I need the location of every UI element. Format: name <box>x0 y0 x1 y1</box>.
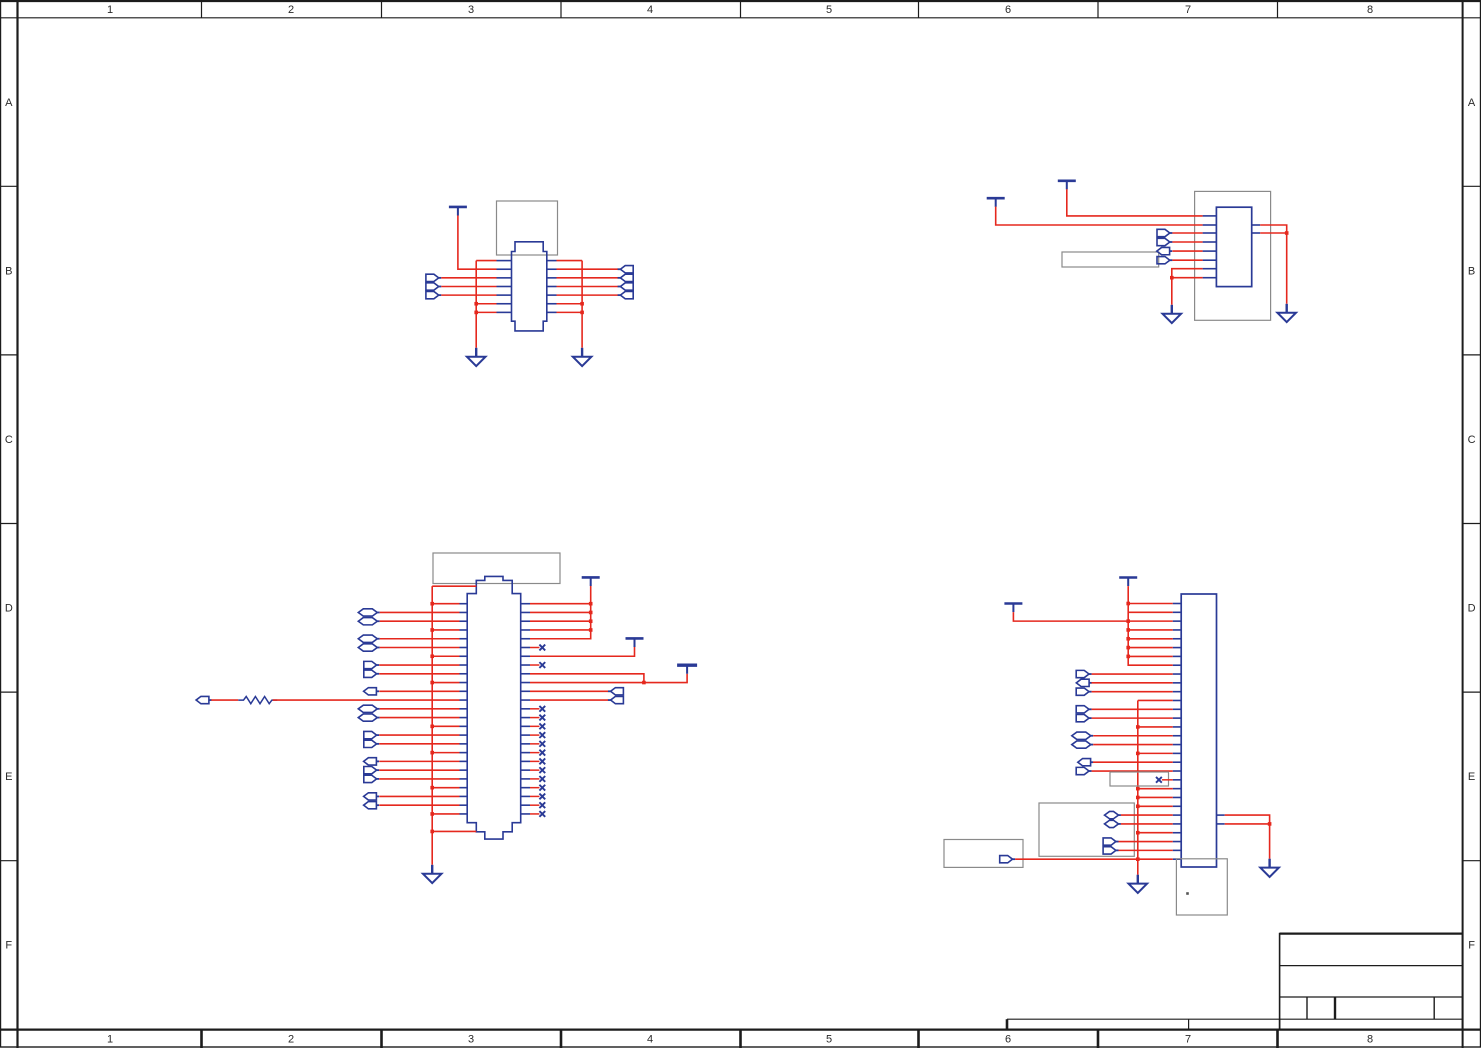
wire power to pin2 <box>996 207 1203 225</box>
wire pin7 to ground <box>1172 269 1203 305</box>
wire stub <box>530 769 539 771</box>
port <box>620 291 633 298</box>
no-connect pin17 <box>539 741 545 747</box>
J2 right pin 35 <box>521 682 530 684</box>
wire stub <box>530 804 539 806</box>
port <box>364 670 377 677</box>
wire power to pin7 <box>530 647 635 656</box>
port <box>358 609 377 616</box>
connector J2 body <box>467 576 521 839</box>
wire port to pin <box>441 277 496 279</box>
J2 right pin 39 <box>521 717 530 719</box>
port <box>1078 759 1091 766</box>
J3 left pin 10 <box>1173 682 1182 684</box>
wire port to pin <box>380 647 460 649</box>
wire pin8 to bus <box>557 260 583 262</box>
port <box>364 802 377 809</box>
port <box>364 793 377 800</box>
port D2 <box>426 291 439 298</box>
wire port to pin <box>379 664 459 666</box>
IC U2 body <box>1216 207 1251 286</box>
wire bus to pin <box>1128 647 1173 649</box>
wire bus to pin <box>1138 805 1173 807</box>
J3 left pin 11 <box>1173 691 1182 693</box>
no-connect pin21 <box>539 776 545 782</box>
J2 left pin 8 <box>460 664 468 666</box>
junction <box>589 602 593 606</box>
wire port to pin <box>380 717 460 719</box>
junction <box>430 654 434 658</box>
J2 right pin 29 <box>521 629 530 631</box>
wire port to pin17 <box>1093 744 1173 746</box>
ground GND5 <box>423 865 442 883</box>
wire power bus to pin8 <box>1128 586 1173 665</box>
svg-text:6: 6 <box>1005 1034 1011 1046</box>
U2 left pin 1 <box>1203 215 1217 217</box>
wire power bus down to pin5 <box>530 586 591 639</box>
svg-text:8: 8 <box>1367 4 1373 16</box>
J1 right pin 9 <box>547 268 557 270</box>
junction <box>430 681 434 685</box>
J1 right pin 8 <box>547 260 557 262</box>
junction <box>1136 831 1140 835</box>
J2 left pin 13 <box>460 708 468 710</box>
port D1 <box>426 283 439 290</box>
wire bus to pin <box>1138 726 1173 728</box>
J2 right pin 31 <box>521 647 530 649</box>
U2 left pin 7 <box>1203 268 1217 270</box>
svg-text:A: A <box>5 97 13 109</box>
port <box>1105 820 1119 827</box>
J2 left pin 1 <box>460 603 468 605</box>
J3 left pin 20 <box>1173 770 1182 772</box>
wire port to pin <box>379 673 459 675</box>
U2 left pin 6 <box>1203 259 1217 261</box>
J2 right pin 40 <box>521 725 530 727</box>
svg-text:E: E <box>5 771 12 783</box>
J2 right pin 41 <box>521 734 530 736</box>
junction <box>1136 752 1140 756</box>
J1 left pin 3 <box>497 277 512 279</box>
port <box>364 766 377 773</box>
J3 left pin 22 <box>1173 788 1182 790</box>
wire port to pin <box>380 611 460 613</box>
junction <box>1170 276 1174 280</box>
junction <box>430 725 434 729</box>
wire R1 to pin12 <box>273 699 460 701</box>
J2 right pin 36 <box>521 690 530 692</box>
U2 left pin 5 <box>1203 250 1217 252</box>
J3 left pin 1 <box>1173 603 1182 605</box>
wire pin to port <box>557 277 619 279</box>
J3 left pin 7 <box>1173 655 1182 657</box>
wire port to R1 <box>211 699 238 701</box>
port <box>1076 688 1089 695</box>
wire stub <box>530 778 539 780</box>
port <box>1157 257 1170 264</box>
label box port name <box>944 840 1023 868</box>
wire stub <box>530 717 539 719</box>
svg-text:D: D <box>1468 603 1476 615</box>
power flag VDD3 <box>677 665 697 674</box>
no-connect pin22 <box>539 785 545 791</box>
J2 right pin 34 <box>521 673 530 675</box>
port TX <box>1157 238 1170 245</box>
J2 left pin 4 <box>460 629 468 631</box>
port <box>620 266 633 273</box>
ground GND1 <box>467 348 486 366</box>
svg-text:D: D <box>5 603 13 615</box>
wire bus to pin 15 <box>432 725 459 727</box>
wire power to pin10 <box>530 674 687 683</box>
J2 right pin 28 <box>521 620 530 622</box>
wire pin to port <box>557 268 619 270</box>
wire port to pin <box>379 769 459 771</box>
U2 left pin 8 <box>1203 277 1217 279</box>
J2 right pin 38 <box>521 708 530 710</box>
J2 left pin 10 <box>460 682 468 684</box>
wire pin9 to ground <box>1260 225 1287 304</box>
wire port to pin6 <box>1172 259 1202 261</box>
J3 left pin 24 <box>1173 805 1182 807</box>
J2 left pin 25 <box>460 813 468 815</box>
svg-text:8: 8 <box>1367 1034 1373 1046</box>
svg-text:F: F <box>1468 940 1475 952</box>
svg-text:3: 3 <box>468 1034 474 1046</box>
no-connect pin8 <box>539 662 545 668</box>
port <box>364 661 377 668</box>
wire port to pin20 <box>1092 770 1173 772</box>
svg-text:4: 4 <box>647 1034 653 1046</box>
wire bus to pin <box>1138 752 1173 754</box>
wire bus to pin <box>1138 788 1173 790</box>
svg-text:7: 7 <box>1185 1034 1191 1046</box>
svg-text:B: B <box>5 266 12 278</box>
J3 left pin 13 <box>1173 708 1182 710</box>
junction <box>1136 796 1140 800</box>
port <box>364 775 377 782</box>
wire bus to pin <box>1128 603 1173 605</box>
power flag VCC1 <box>1058 181 1076 190</box>
J3 left pin 19 <box>1173 761 1182 763</box>
U2 left pin 4 <box>1203 241 1217 243</box>
wire stub <box>530 760 539 762</box>
wire port to pin30 <box>1015 858 1173 860</box>
J2 right pin 30 <box>521 638 530 640</box>
J1 right pin 14 <box>547 311 557 313</box>
wire pin32 to ground bus <box>1225 823 1270 825</box>
junction <box>1136 804 1140 808</box>
port <box>196 696 209 703</box>
wire stub <box>530 752 539 754</box>
port <box>611 688 624 695</box>
J1 right pin 10 <box>547 277 557 279</box>
wire pin to power bus <box>530 611 591 613</box>
junction <box>430 830 434 834</box>
wire pin7 to bus <box>476 311 496 313</box>
wire power to pin2 <box>458 216 497 270</box>
J3 left pin 14 <box>1173 717 1182 719</box>
wire stub <box>530 795 539 797</box>
J2 left pin 17 <box>460 743 468 745</box>
junction <box>474 302 478 306</box>
port <box>1072 741 1091 748</box>
J3 left pin 26 <box>1173 823 1182 825</box>
wire port to pin10 <box>1092 682 1173 684</box>
junction <box>1268 822 1272 826</box>
wire bus to pin <box>1138 796 1173 798</box>
wire pin13 to bus <box>557 303 583 305</box>
J3 left pin 28 <box>1173 841 1182 843</box>
ground GND2 <box>573 348 592 366</box>
J2 left pin 24 <box>460 804 468 806</box>
port <box>1076 679 1089 686</box>
junction <box>430 628 434 632</box>
wire pin12 to port <box>530 699 608 701</box>
svg-text:2: 2 <box>288 1034 294 1046</box>
junction <box>1136 725 1140 729</box>
wire bus to pin <box>1128 611 1173 613</box>
wire bus to shell top <box>432 585 476 587</box>
J3 right pin 31 <box>1217 814 1225 816</box>
junction <box>580 302 584 306</box>
J3 left pin 9 <box>1173 673 1182 675</box>
J3 left pin 12 <box>1173 699 1182 701</box>
J3 right pin 32 <box>1217 823 1225 825</box>
port <box>358 618 377 625</box>
port <box>1105 811 1119 818</box>
wire stub <box>530 647 539 649</box>
J2 left pin 15 <box>460 725 468 727</box>
ground GND4 <box>1277 304 1296 322</box>
J3 left pin 4 <box>1173 629 1182 631</box>
port <box>358 714 377 721</box>
component outline box U1 <box>497 201 558 255</box>
svg-text:5: 5 <box>826 4 832 16</box>
J1 left pin 1 <box>497 260 512 262</box>
label box J3 value <box>1176 859 1227 915</box>
wire bus to pin <box>1128 655 1173 657</box>
J2 left pin 12 <box>460 699 468 701</box>
power flag VDD2 <box>626 638 644 647</box>
J2 right pin 43 <box>521 752 530 754</box>
J2 right pin 45 <box>521 769 530 771</box>
J2 left pin 16 <box>460 734 468 736</box>
port <box>611 696 624 703</box>
port <box>364 758 377 765</box>
J2 left pin 20 <box>460 769 468 771</box>
wire port to pin <box>379 743 459 745</box>
resistor R1 <box>238 697 277 704</box>
port <box>1076 670 1089 677</box>
wire port to pin13 <box>1092 708 1173 710</box>
svg-text:2: 2 <box>288 4 294 16</box>
svg-text:1: 1 <box>107 4 113 16</box>
J1 right pin 11 <box>547 285 557 287</box>
J3 left pin 25 <box>1173 814 1182 816</box>
J3 left pin 21 <box>1173 779 1182 781</box>
svg-text:F: F <box>5 940 12 952</box>
port <box>364 740 377 747</box>
wire bus to pin <box>1128 638 1173 640</box>
wire pin6 to bus <box>476 303 496 305</box>
wire left ground bus <box>475 261 477 348</box>
no-connect pin20 <box>539 767 545 773</box>
wire pin11 to port <box>530 690 608 692</box>
wire power to pin1 <box>1067 189 1203 216</box>
svg-text:4: 4 <box>647 4 653 16</box>
J2 left pin 5 <box>460 638 468 640</box>
wire pin1 to bus <box>476 260 496 262</box>
wire J3 ground bus <box>1137 700 1139 874</box>
J1 left pin 4 <box>497 285 512 287</box>
J2 left pin 23 <box>460 795 468 797</box>
J2 left pin 2 <box>460 611 468 613</box>
J3 left pin 27 <box>1173 832 1182 834</box>
no-connect pin21 <box>1156 777 1162 783</box>
wire bus to pin 18 <box>432 752 459 754</box>
J3 left pin 16 <box>1173 735 1182 737</box>
port <box>1000 856 1013 863</box>
J2 left pin 21 <box>460 778 468 780</box>
power flag VDD4 <box>1119 578 1137 587</box>
wire stub <box>530 725 539 727</box>
port <box>1076 706 1089 713</box>
wire pin to power bus <box>530 629 591 631</box>
junction <box>589 619 593 623</box>
J1 left pin 2 <box>497 268 512 270</box>
wire bus to pin 25 <box>432 813 459 815</box>
no-connect pin13 <box>539 706 545 712</box>
wire bus top to pin12 <box>1138 699 1173 701</box>
wire stub <box>1162 779 1173 781</box>
connector J3 body <box>1181 594 1216 867</box>
port RX <box>1157 229 1170 236</box>
wire port to pin <box>380 638 460 640</box>
wire stub <box>530 708 539 710</box>
junction <box>1126 619 1130 623</box>
junction <box>589 628 593 632</box>
svg-text:C: C <box>5 434 13 446</box>
J1 left pin 7 <box>497 311 512 313</box>
no-connect pin15 <box>539 723 545 729</box>
J2 left pin 22 <box>460 787 468 789</box>
junction <box>1136 787 1140 791</box>
no-connect pin25 <box>539 811 545 817</box>
J3 left pin 15 <box>1173 726 1182 728</box>
wire port to pin <box>379 760 459 762</box>
wire pin31 to ground <box>1225 815 1270 859</box>
junction <box>1126 637 1130 641</box>
J3 left pin 17 <box>1173 744 1182 746</box>
J2 right pin 48 <box>521 795 530 797</box>
wire port to pin <box>441 285 496 287</box>
wire pin8 to ground bus <box>1172 277 1203 279</box>
junction <box>430 602 434 606</box>
wire pin to port <box>557 285 619 287</box>
J3 left pin 5 <box>1173 638 1182 640</box>
J2 left pin 3 <box>460 620 468 622</box>
wire port to pin14 <box>1092 717 1173 719</box>
junction <box>430 812 434 816</box>
port <box>1072 732 1091 739</box>
svg-text:C: C <box>1468 434 1476 446</box>
label box U2 value <box>1062 252 1159 267</box>
wire port to pin <box>380 708 460 710</box>
no-connect pin14 <box>539 715 545 721</box>
J2 left pin 7 <box>460 655 468 657</box>
J3 left pin 30 <box>1173 858 1182 860</box>
ground GND3 <box>1163 305 1182 323</box>
label box NC <box>1110 772 1169 786</box>
svg-text:B: B <box>1468 266 1475 278</box>
wire port to pin4 <box>1172 241 1202 243</box>
J3 left pin 23 <box>1173 796 1182 798</box>
label box group <box>1039 803 1134 856</box>
port <box>358 635 377 642</box>
label box J2 value <box>433 553 560 584</box>
J3 left pin 29 <box>1173 849 1182 851</box>
J3 left pin 3 <box>1173 620 1182 622</box>
J3 left pin 2 <box>1173 611 1182 613</box>
U2 left pin 3 <box>1203 232 1217 234</box>
junction <box>580 311 584 315</box>
power flag VDD1 <box>582 577 600 586</box>
wire bus to pin 1 <box>432 603 459 605</box>
J2 right pin 47 <box>521 787 530 789</box>
J2 right pin 37 <box>521 699 530 701</box>
junction <box>1126 602 1130 606</box>
J2 left pin 19 <box>460 760 468 762</box>
no-connect pin16 <box>539 732 545 738</box>
svg-text:7: 7 <box>1185 4 1191 16</box>
wire port to pin3 <box>1172 232 1202 234</box>
U2 right pin 10 <box>1252 232 1261 234</box>
J2 right pin 27 <box>521 611 530 613</box>
ground GND7 <box>1260 859 1279 877</box>
port <box>1157 247 1170 254</box>
U2 left pin 2 <box>1203 224 1217 226</box>
J2 right pin 46 <box>521 778 530 780</box>
junction <box>474 311 478 315</box>
wire port to pin <box>379 778 459 780</box>
wire port to pin9 <box>1092 673 1173 675</box>
J1 left pin 6 <box>497 303 512 305</box>
J2 right pin 26 <box>521 603 530 605</box>
no-connect pin18 <box>539 750 545 756</box>
J2 right pin 50 <box>521 813 530 815</box>
J2 left pin 14 <box>460 717 468 719</box>
ground GND6 <box>1129 875 1148 893</box>
port <box>364 731 377 738</box>
wire stub <box>530 787 539 789</box>
wire port to pin26 <box>1121 823 1173 825</box>
wire bus to shell bottom <box>432 830 476 832</box>
port <box>1103 847 1116 854</box>
wire port to pin <box>380 620 460 622</box>
J3 left pin 8 <box>1173 664 1182 666</box>
junction <box>1126 646 1130 650</box>
wire pin to port <box>557 294 619 296</box>
port D0 <box>426 274 439 281</box>
wire bus to pin <box>1128 629 1173 631</box>
wire bus to pin 10 <box>432 682 459 684</box>
wire port to pin5 <box>1172 250 1202 252</box>
junction <box>430 786 434 790</box>
J3 left pin 6 <box>1173 647 1182 649</box>
J2 left pin 18 <box>460 752 468 754</box>
port <box>620 283 633 290</box>
